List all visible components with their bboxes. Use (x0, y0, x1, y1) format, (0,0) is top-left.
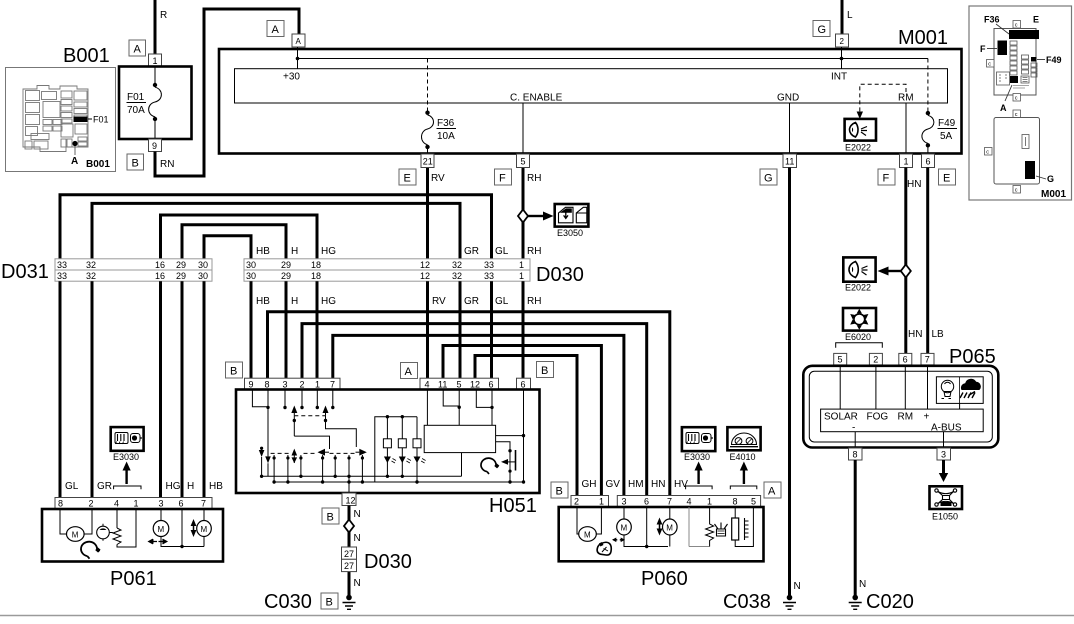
svg-text:12: 12 (420, 260, 430, 270)
letter box E (pin21) (399, 169, 416, 185)
svg-text:HB: HB (256, 246, 270, 257)
M001 location panel frame (969, 6, 1072, 200)
lower module inner connector (1022, 135, 1029, 149)
svg-text:GL: GL (65, 481, 79, 492)
A-BUS arrow to E1050 (942, 460, 945, 474)
sheet bottom border (0, 615, 1074, 617)
black block A (1010, 76, 1018, 83)
svg-text:16: 16 (155, 271, 165, 281)
interior: crosslink (294, 436, 329, 449)
H051 pin strip right (4 11 5 12 6) (420, 378, 499, 389)
wire HB: D031-30 down to P061 pin7 (203, 281, 206, 497)
svg-text:1: 1 (599, 497, 604, 507)
letter box B (P060) (551, 482, 568, 498)
svg-text:RV: RV (432, 296, 446, 307)
svg-text:GV: GV (606, 479, 621, 490)
interior: bottom rail 1 (262, 475, 462, 477)
svg-text:F36: F36 (437, 118, 455, 129)
letter box F (pin1) (878, 169, 895, 185)
wire GH: H051 pin12 to P060 pin2 (475, 356, 577, 496)
svg-text:9: 9 (249, 379, 254, 389)
interior: comb icon (745, 518, 749, 540)
svg-text:12: 12 (420, 271, 430, 281)
wire labels below strip (256, 296, 541, 307)
svg-text:F: F (499, 173, 506, 185)
arrow to E3050 (528, 215, 544, 217)
svg-text:7: 7 (330, 379, 335, 389)
svg-text:P060: P060 (641, 568, 688, 590)
svg-text:E: E (943, 173, 950, 185)
interior: bottom rail 2 (274, 481, 524, 483)
window switch unit E3050 (555, 204, 589, 227)
dashed feed to fuse F49 (927, 59, 929, 113)
bracket over pins 4-1 (114, 486, 141, 489)
svg-text:H: H (291, 296, 298, 307)
svg-text:P061: P061 (110, 568, 157, 590)
locator c-box left of lower module (985, 148, 993, 156)
svg-text:7: 7 (667, 497, 672, 507)
svg-text:9: 9 (152, 141, 157, 151)
svg-text:33: 33 (484, 260, 494, 270)
connector letter box A (M001 top) (267, 21, 284, 37)
buzzer E2022 (in M001) (845, 119, 876, 141)
svg-text:F49: F49 (1046, 55, 1062, 65)
letter box A (P060) (764, 482, 781, 498)
svg-text:H: H (291, 246, 298, 257)
svg-text:B001: B001 (63, 45, 110, 67)
B001 fuse F01 highlighted (black) (74, 117, 88, 123)
connector D030 inline (27/27) (342, 547, 357, 559)
svg-text:33: 33 (484, 271, 494, 281)
ground C030 (346, 595, 352, 601)
svg-text:E2022: E2022 (845, 143, 871, 153)
buzzer E2022 (dashboard) (843, 257, 875, 281)
svg-text:3: 3 (283, 379, 288, 389)
locator c-box left (987, 60, 995, 68)
interior: washer spray icon (715, 523, 728, 537)
wire RN from F01 pin9 to M001 pin A (155, 9, 299, 176)
P060 pin strip left (2 1) (571, 496, 609, 508)
svg-text:70A: 70A (127, 105, 145, 116)
P065 pin 3 box (937, 448, 951, 460)
letter box E (pin6) (939, 169, 956, 185)
svg-text:F: F (980, 44, 986, 54)
svg-text:D030: D030 (536, 264, 584, 286)
wire N: H051 pin12 to ground C030 (348, 506, 351, 598)
M001 pin 5 box (517, 154, 530, 168)
svg-text:11: 11 (785, 157, 794, 167)
wire LB: M001 pin6 to P065 pin7 (926, 168, 929, 354)
svg-text:RH: RH (527, 246, 541, 257)
P065 pin 2 box (869, 353, 882, 365)
arrow up to E3030 (697, 469, 699, 484)
crossover wire 30-30 (204, 236, 251, 259)
svg-text:G: G (764, 173, 773, 185)
svg-text:SOLAR: SOLAR (824, 412, 858, 423)
svg-text:+30: +30 (283, 72, 300, 83)
svg-text:6: 6 (489, 379, 494, 389)
svg-text:H: H (187, 481, 194, 492)
svg-text:A: A (296, 37, 302, 46)
svg-text:A: A (768, 486, 776, 498)
connector strip D031/D030 left segment (55, 259, 212, 270)
fuse column 2 (1022, 55, 1029, 74)
connector letter box B (127, 154, 144, 170)
internal bus from +30 node to F49 branch (298, 58, 928, 60)
svg-text:B: B (132, 158, 139, 170)
splice diamond (344, 520, 354, 533)
svg-text:8: 8 (58, 499, 63, 509)
B001 fusebox drawing outline (23, 86, 88, 152)
interior: arrow row down-arrow 3 (292, 457, 298, 463)
wire RH: D030-1 down to H051 pin6b (522, 281, 525, 378)
interior: logic block output to rail (461, 453, 463, 477)
svg-text:B: B (541, 365, 548, 377)
washer pump motor unit P061 body (42, 509, 223, 562)
letter box B (H051 left) (226, 362, 243, 378)
svg-text:5: 5 (751, 497, 756, 507)
svg-text:F: F (883, 173, 890, 185)
interior: pin12 feed (476, 390, 492, 408)
svg-text:N: N (354, 509, 361, 520)
interior: window motor M (pin 7) (203, 509, 205, 521)
svg-text:8: 8 (733, 497, 738, 507)
relay/switch unit H051 body (236, 390, 540, 494)
wire GND to pin 11 (789, 103, 791, 154)
interior: pin2 stub (301, 390, 303, 408)
wire RV from M001 pin21 to D030 pin12 (426, 168, 429, 259)
svg-text:18: 18 (311, 271, 321, 281)
svg-text:F36: F36 (984, 15, 1000, 25)
letter box B (H051 right) (537, 362, 554, 378)
interior: pin6b line (523, 390, 525, 483)
locator c-box top (1013, 21, 1021, 29)
svg-text:29: 29 (281, 260, 291, 270)
interior: dashed coupler (294, 415, 325, 417)
svg-text:30: 30 (246, 271, 256, 281)
svg-text:GR: GR (464, 246, 479, 257)
interior: link rail pins 3-6-7 (161, 537, 204, 547)
wire H: D030-29 down to H051 pin3 (285, 281, 288, 378)
P060 pin strip right (3 6 7 4 1 8 5) (617, 496, 760, 508)
svg-text:F01: F01 (93, 115, 109, 125)
P065 pin 8 box (849, 448, 863, 460)
svg-text:RN: RN (160, 159, 174, 170)
M001 pin 21 box (421, 154, 434, 168)
svg-text:5: 5 (838, 355, 843, 365)
wiper/washer unit P060 body (559, 507, 764, 561)
svg-text:E4010: E4010 (730, 452, 756, 462)
interior: dashed row segments (271, 452, 356, 454)
pin 1 box (149, 54, 162, 67)
svg-text:8: 8 (853, 450, 858, 460)
label F49 with pointer (1037, 59, 1045, 61)
interior: heater resistor (pins 4-1) (116, 509, 118, 528)
svg-text:c: c (986, 150, 989, 156)
svg-text:c: c (1015, 23, 1018, 29)
svg-text:6: 6 (903, 355, 908, 365)
rain/light sensor P065 body (803, 366, 998, 448)
svg-text:C038: C038 (723, 591, 771, 613)
wire L (top right) (841, 0, 844, 34)
interior: switch feed (496, 442, 510, 481)
interior: arrow row down-arrow 2 (265, 456, 271, 463)
svg-text:27: 27 (344, 549, 354, 559)
arrow to E2022 (888, 270, 901, 272)
wire RV: D030-12 down to H051 pin4 (426, 281, 429, 378)
svg-text:HB: HB (256, 296, 270, 307)
svg-text:E3030: E3030 (113, 452, 139, 462)
interior: horn icon (81, 542, 99, 559)
interior: washer jet icon (97, 526, 110, 539)
P065 pin 7 box (921, 353, 934, 365)
interior: mirror motor 2 M (pin 7) (669, 507, 671, 520)
locator c-box bottom (1013, 186, 1021, 194)
svg-text:1: 1 (519, 260, 524, 270)
rain cloud icon (960, 379, 981, 398)
climate sensor E6020 (843, 308, 876, 331)
svg-text:M: M (584, 530, 591, 539)
node +30 feed: pin A into board (297, 47, 299, 69)
P065 pin 6 box (899, 353, 912, 365)
wire HB: D030-30 down to H051 pin9 (250, 281, 253, 378)
interior: mirror motor M (pin 3) (623, 507, 625, 520)
splice diamond on HN (901, 265, 911, 278)
svg-text:10A: 10A (437, 131, 455, 142)
svg-text:21: 21 (423, 157, 433, 167)
svg-text:RH: RH (527, 173, 541, 184)
svg-text:GL: GL (495, 296, 509, 307)
svg-text:HM: HM (628, 479, 644, 490)
svg-text:L: L (847, 10, 853, 21)
wire HM: H051 pin7 to P060 pin3 (333, 335, 624, 495)
interior: right contact drop (326, 416, 357, 447)
svg-text:HG: HG (321, 246, 336, 257)
svg-text:1: 1 (519, 271, 524, 281)
crossover wire 33-33 (60, 195, 492, 259)
svg-text:HV: HV (674, 479, 688, 490)
interior: arrow row up-arrow (292, 449, 298, 456)
svg-text:+: + (924, 412, 930, 423)
interior: pin7 stub (332, 390, 334, 408)
svg-text:M001: M001 (1041, 189, 1066, 200)
wire HV: H051 pin8 to P060 pin7 (268, 312, 670, 496)
interior: LED branch top rail (375, 417, 417, 482)
interior: heater resistor (pins 4-1) (688, 507, 690, 547)
svg-text:N: N (354, 578, 361, 589)
svg-text:GH: GH (582, 479, 597, 490)
wire R (battery feed, top) (154, 0, 157, 54)
M001 pin 11 box (783, 154, 797, 168)
P065 terminal strip (821, 409, 984, 432)
connector strip D031/D030 centre segment (244, 259, 530, 270)
svg-text:G: G (1047, 174, 1054, 184)
svg-text:A-BUS: A-BUS (941, 502, 952, 506)
svg-text:RH: RH (527, 296, 541, 307)
svg-text:N: N (859, 579, 866, 590)
svg-text:E1050: E1050 (932, 512, 958, 522)
location panel: upper fuse module (994, 29, 1036, 96)
M001 pin 1 box (900, 154, 913, 168)
svg-text:7: 7 (925, 355, 930, 365)
interior: pump motor M (pins 2-1) (577, 507, 579, 534)
svg-text:29: 29 (176, 271, 186, 281)
svg-text:GL: GL (495, 246, 509, 257)
arrow up to E3030 (125, 469, 127, 484)
svg-text:c: c (1015, 188, 1018, 194)
svg-text:M001: M001 (898, 27, 948, 49)
resistor 1 (386, 417, 388, 439)
svg-text:HG: HG (321, 296, 336, 307)
interior: pin1 stub (316, 390, 318, 408)
svg-text:1: 1 (707, 497, 712, 507)
svg-text:2: 2 (873, 355, 878, 365)
svg-text:A-BUS: A-BUS (931, 423, 962, 434)
svg-text:18: 18 (311, 260, 321, 270)
wire N (GND): M001 pin11 to ground C038 (788, 168, 791, 598)
H051 pin 12 bottom box (342, 493, 356, 506)
ground C020 (852, 595, 858, 601)
svg-text:2: 2 (300, 379, 305, 389)
svg-text:HN: HN (651, 479, 665, 490)
svg-text:B: B (327, 512, 334, 524)
crossover wire 32-32 (92, 203, 460, 259)
control unit M001 body (219, 49, 962, 154)
svg-text:33: 33 (57, 260, 67, 270)
body computer node E1050 (930, 486, 963, 509)
P065 pin feeds (839, 365, 841, 409)
svg-text:32: 32 (452, 271, 462, 281)
LED 1 (386, 448, 388, 477)
interior: left contact drop (293, 416, 295, 436)
interior: logic block (424, 425, 495, 452)
svg-text:G: G (818, 24, 827, 36)
svg-text:A: A (71, 156, 78, 167)
svg-text:FOG: FOG (867, 412, 889, 423)
svg-text:E: E (404, 173, 411, 185)
svg-text:M: M (158, 525, 165, 534)
svg-text:M: M (621, 524, 628, 533)
interior: left-arrow (318, 449, 326, 456)
svg-text:2: 2 (574, 497, 579, 507)
svg-text:7: 7 (201, 499, 206, 509)
P065 pin 3 feed (943, 432, 945, 448)
svg-text:RM: RM (898, 412, 914, 423)
bracket over pins 8-5 (730, 486, 757, 489)
wire C.ENABLE to pin 5 (522, 103, 524, 154)
svg-text:2: 2 (89, 499, 94, 509)
interior: pin11 feed (443, 390, 459, 407)
fuse F36 (425, 111, 429, 115)
svg-text:30: 30 (198, 260, 208, 270)
interior: right-arrow (359, 449, 367, 456)
wire GR: D030-32 down to H051 pin5 (459, 281, 462, 378)
H051 pin strip left (9 8 3 2 1 7) (245, 378, 341, 389)
svg-text:F49: F49 (938, 118, 956, 129)
tiny text row (1013, 86, 1029, 89)
fuse F49 black mark (1031, 57, 1037, 62)
svg-text:RM: RM (898, 93, 914, 104)
svg-text:3: 3 (941, 450, 946, 460)
dashed feed to fuse F36 (427, 59, 429, 113)
svg-text:N: N (354, 533, 361, 544)
interior: rail pins 3-6-7 (624, 535, 668, 547)
wire labels above strip (256, 246, 541, 257)
svg-text:1: 1 (315, 379, 320, 389)
letter box G (pin11) (760, 169, 777, 185)
connector letter box G (M001 top) (813, 21, 830, 37)
wire HN: H051 pin2 to P060 pin6 (302, 324, 647, 496)
fog/lamp switch unit E3030 (left) (111, 427, 144, 451)
svg-text:B001: B001 (86, 159, 110, 170)
svg-text:29: 29 (176, 260, 186, 270)
resistor 3 (416, 417, 418, 439)
F01 pointer label (88, 118, 92, 120)
svg-text:HG: HG (166, 481, 181, 492)
svg-text:F01: F01 (127, 92, 145, 103)
small connector with pins (1021, 76, 1029, 83)
svg-text:32: 32 (452, 260, 462, 270)
svg-text:5A: 5A (940, 131, 953, 142)
fuse F49 (926, 111, 930, 115)
interior: up/down arrows (657, 518, 663, 536)
crossover wire 16-18 (161, 215, 318, 259)
fuse F01 box (119, 67, 192, 140)
letter box A (H051) (401, 363, 418, 379)
svg-text:N: N (794, 581, 801, 592)
svg-text:32: 32 (86, 260, 96, 270)
instrument cluster E4010 (727, 427, 760, 450)
P065 pin 8 feed (854, 432, 856, 448)
M001 pin 6 box (922, 154, 935, 168)
svg-text:M: M (72, 530, 79, 539)
interior: horn icon (481, 458, 498, 474)
svg-text:30: 30 (246, 260, 256, 270)
svg-text:12: 12 (470, 379, 480, 389)
label A with pointer (1005, 85, 1012, 101)
wire GL: D031-33 down to P061 pin8 (59, 281, 62, 497)
svg-text:E3030: E3030 (684, 452, 710, 462)
svg-text:16: 16 (155, 260, 165, 270)
bulb icon (941, 380, 953, 398)
fuse F01 element (154, 67, 156, 86)
svg-text:4: 4 (687, 497, 692, 507)
svg-text:6: 6 (926, 157, 931, 167)
bracket over pins 4-1 (686, 486, 713, 489)
wire H: D031-29 down to P061 pin6 (181, 281, 184, 497)
M001 pin A box (292, 34, 305, 47)
svg-text:B: B (556, 486, 563, 498)
interior: pin9 stub (252, 390, 268, 407)
black block G (1025, 161, 1035, 179)
svg-text:E6020: E6020 (845, 332, 871, 342)
svg-text:C020: C020 (866, 591, 914, 613)
fuse column 1 (1010, 41, 1017, 75)
interior: small stems with dots to rails (260, 455, 364, 484)
wire GR: D031-32 down to P061 pin2 (91, 281, 94, 497)
arrow up to E4010 (743, 469, 745, 484)
svg-text:HN: HN (908, 329, 922, 340)
svg-text:3: 3 (159, 499, 164, 509)
svg-text:C030: C030 (264, 591, 312, 613)
interior: mirror icon (597, 542, 611, 555)
svg-text:6: 6 (644, 497, 649, 507)
interior: wiper motor M (pin 3) (160, 509, 162, 521)
splice diamond on RH (518, 210, 528, 223)
interior: switch actuator arrow (506, 461, 515, 463)
svg-text:c: c (988, 62, 991, 68)
svg-text:27: 27 (344, 561, 354, 571)
